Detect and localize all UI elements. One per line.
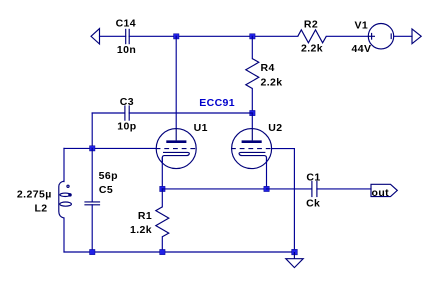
wire: cathode rail [162,188,266,190]
svg-text:U2: U2 [268,122,282,134]
svg-text:R1: R1 [138,210,152,222]
wire: left rail bottom [63,218,65,252]
wire: R2 to V1 [326,35,368,37]
ground [286,252,303,268]
port flag out [371,184,397,196]
wire: C1 to out port [317,188,371,190]
svg-text:Ck: Ck [306,197,320,209]
svg-text:C3: C3 [120,96,134,108]
svg-text:10p: 10p [117,120,136,132]
svg-text:ECC91: ECC91 [199,97,235,109]
svg-text:L2: L2 [34,203,47,215]
capacitor C14 [126,29,130,44]
svg-text:U1: U1 [194,122,208,134]
wire: R1 top lead [161,189,163,207]
wire: U2 cathode lead [266,158,268,189]
node junction cathode rail x=162 [160,186,165,191]
wire: left arrow to C14 [100,35,126,37]
wire: left rail top [63,148,65,181]
resistor R2 [298,30,327,43]
node junction cathode rail x=266 [264,186,269,191]
voltage source V1 [368,24,393,49]
resistor R4 [246,59,259,89]
node junction ground x=294 [292,249,298,255]
triode U1 [156,129,197,169]
svg-text:1.2k: 1.2k [130,224,152,236]
wire: U1 cathode lead [161,158,163,189]
svg-text:10n: 10n [117,44,136,56]
svg-text:out: out [372,187,390,199]
wire: bottom rail right [162,251,294,253]
triode U2 [231,129,272,169]
svg-text:44V: 44V [352,43,372,55]
wire: C5 top lead [91,148,93,202]
svg-text:R4: R4 [261,62,275,74]
svg-text:C14: C14 [116,18,136,30]
svg-text:R2: R2 [304,18,318,30]
svg-text:C5: C5 [99,184,113,196]
svg-text:2.275µ: 2.275µ [17,189,52,201]
wire: C14 to node at x=176 [129,35,176,37]
capacitor C3 [125,105,129,120]
wire: R4 to plate node [251,89,253,114]
svg-text:2.2k: 2.2k [261,77,283,89]
wire: cathode rail to C1 [267,188,312,190]
port terminal left arrow [91,29,100,44]
resistor R1 [156,207,169,237]
node junction top rail x=176 [174,34,179,39]
wire: node x=252 to R2 [252,35,297,37]
wire: ground branch down [293,149,295,252]
wire: V1 to right arrow [394,35,412,37]
svg-text:C1: C1 [306,172,320,184]
svg-text:V1: V1 [355,19,369,31]
inductor L2 [59,181,72,218]
wire: node down to U2 plate [251,113,253,129]
node junction bottom rail x=92 [90,249,95,254]
node junction bottom rail x=162 [160,249,165,254]
wire: node x=176 to node x=252 [176,35,252,37]
node junction top rail x=252 [250,34,255,39]
node junction grid rail x=92 [90,146,95,151]
port terminal right arrow [412,29,421,44]
svg-text:56p: 56p [99,170,118,182]
wire: C3 left lead [92,112,125,114]
wire: U2 grid to ground branch [272,148,295,150]
wire: top rail down to U1 plate [175,36,177,129]
wire: C3 right lead to plate node [129,112,252,114]
svg-text:2.2k: 2.2k [301,43,323,55]
capacitor C1 [312,181,317,197]
wire: C3 branch down to grid rail [91,113,93,148]
wire: bottom rail left [64,251,162,253]
wire: C5 bottom lead [91,205,93,252]
wire: top node to R4 [251,36,253,58]
capacitor C5 [84,202,100,205]
wire: grid rail to U1 grid [64,147,156,149]
wire: R1 bottom lead [161,237,163,252]
node junction x=252 y=113 [250,110,255,115]
